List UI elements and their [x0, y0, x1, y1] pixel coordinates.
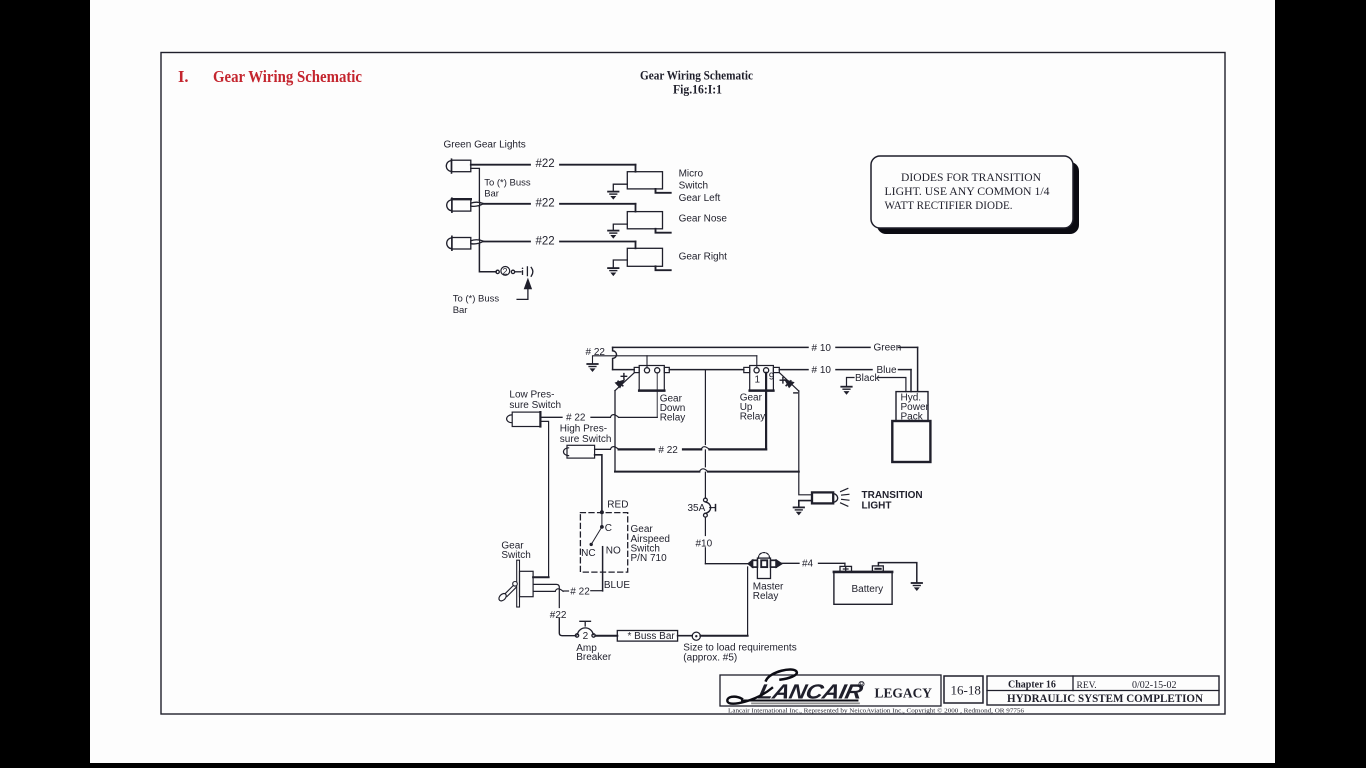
wire bus through splice2: [478, 201, 480, 207]
wire gear switch lower lead (#22 to BLUE): [533, 590, 555, 592]
svg-text:# 10: # 10: [812, 343, 832, 354]
svg-text:Low Pres-: Low Pres-: [509, 390, 554, 401]
lamp DS2 (nose gear light): [447, 200, 452, 211]
gear switch body: [520, 571, 534, 596]
wire contact bus (y369.6): [613, 369, 635, 371]
connector (quick disconnect): [522, 268, 524, 270]
wire ground stub gear left: [613, 184, 627, 191]
wire ground stub gear nose: [613, 224, 627, 230]
micro switch box Gear Nose: [627, 212, 662, 229]
fuse 35A: [704, 498, 708, 502]
svg-text:Gear Right: Gear Right: [679, 252, 728, 263]
gear switch lever handle: [498, 592, 508, 602]
svg-text:35A: 35A: [688, 503, 706, 514]
label + (diode D1): [621, 374, 626, 379]
svg-text:NO: NO: [606, 545, 621, 556]
svg-text:2: 2: [503, 266, 508, 276]
gear switch lever: [504, 586, 516, 597]
label + (diode D2): [780, 378, 785, 383]
wire hop (bus A over coil bus): [613, 347, 617, 369]
master relay body: [757, 558, 770, 578]
svg-text:Gear Wiring Schematic: Gear Wiring Schematic: [213, 67, 362, 86]
ground (battery): [912, 583, 922, 591]
master relay left terminal: [748, 560, 752, 567]
wire battery negative to ground: [878, 563, 916, 583]
svg-text:Breaker: Breaker: [576, 652, 612, 663]
svg-text:C: C: [605, 523, 612, 534]
svg-text:0/02-15-02: 0/02-15-02: [1132, 680, 1176, 691]
svg-text:Relay: Relay: [740, 412, 766, 423]
wire relay K2 terminal9 down to #22: [765, 373, 767, 450]
logo registered mark: [859, 681, 864, 686]
svg-text:To (*) Buss: To (*) Buss: [453, 294, 500, 305]
wire low pressure switch tail down: [540, 421, 548, 577]
node C (airspeed switch common): [600, 525, 604, 529]
wire gear switch upper lead down to breaker: [533, 584, 559, 607]
relay K2 left tab: [744, 367, 750, 372]
ground (gear left switch): [608, 192, 618, 200]
wire black lead to hyd power pack: [847, 378, 906, 392]
svg-text:Fig.16:I:1: Fig.16:I:1: [673, 83, 722, 97]
svg-text:sure Switch: sure Switch: [560, 434, 612, 445]
svg-text:Relay: Relay: [753, 591, 779, 602]
wire buss bar to stud: [678, 635, 693, 637]
svg-text:LIGHT. USE ANY COMMON 1/4: LIGHT. USE ANY COMMON 1/4: [885, 186, 1050, 198]
wire breaker to buss bar: [595, 635, 617, 637]
ground (gear nose switch): [608, 231, 618, 239]
svg-text:# 10: # 10: [812, 365, 832, 376]
svg-text:Gear Nose: Gear Nose: [679, 214, 728, 225]
wire ground stub gear right: [613, 260, 627, 268]
footer table frame: [987, 676, 1219, 705]
svg-text:(approx. #5): (approx. #5): [683, 652, 737, 663]
wire tail gear right switch: [656, 266, 671, 270]
note box shadow: [877, 162, 1079, 234]
wire fuse down to master relay: [704, 517, 706, 535]
svg-text:#4: #4: [802, 559, 814, 570]
breaker 2A (lights): [501, 267, 510, 276]
stud connector: [692, 632, 700, 640]
note box (diodes for transition light): [871, 156, 1073, 228]
wire left drop from diode D1: [614, 391, 616, 472]
wire breaker to connector: [515, 271, 521, 273]
battery - terminal: [872, 566, 883, 572]
wire bottom bus (y471.6): [615, 471, 699, 473]
svg-text:Switch: Switch: [501, 550, 530, 561]
svg-text:9: 9: [769, 372, 775, 383]
wire top bus #10 Green (y347.4): [613, 346, 808, 348]
master relay dome (dashed): [758, 553, 769, 559]
ground (coil bus): [587, 364, 597, 372]
wire transition light ground stub: [799, 501, 812, 508]
wire high pressure switch tail: [595, 455, 602, 512]
wire bus through splice3: [478, 239, 480, 245]
diode D1 (gear down): [615, 373, 634, 391]
lamp DS1 (left gear light): [446, 161, 451, 172]
svg-text:Gear Left: Gear Left: [679, 193, 721, 204]
wire right drop from diode D2 to transition light: [799, 391, 812, 495]
node NC contact: [590, 543, 593, 546]
gear switch pivot: [513, 582, 518, 587]
svg-text:DIODES FOR TRANSITION: DIODES FOR TRANSITION: [901, 172, 1042, 184]
page number box 16-18: [944, 676, 983, 703]
wire bus lamp3 down to breaker: [479, 245, 496, 272]
svg-text:LEGACY: LEGACY: [875, 686, 933, 701]
low pressure switch: [507, 415, 512, 423]
svg-text:Bar: Bar: [484, 189, 499, 200]
diode D2 (gear up): [779, 373, 799, 391]
svg-text:Battery: Battery: [852, 584, 884, 595]
wire #10 to master relay: [705, 563, 748, 565]
logo underline shadow: [752, 702, 859, 704]
wire lamp3 to micro switch (#22): [484, 241, 530, 243]
relay K2 right tab: [773, 367, 779, 372]
svg-text:Blue: Blue: [877, 365, 897, 376]
wire high pressure switch to relay K2 (#22): [595, 448, 611, 450]
footer logo box: [720, 675, 941, 706]
svg-text:Bar: Bar: [453, 305, 468, 316]
wire green drop to hyd power pack: [917, 347, 919, 391]
battery box: [834, 572, 892, 604]
logo bottom swash loop: [727, 688, 772, 704]
svg-text:Black: Black: [855, 373, 880, 384]
master relay right terminal: [771, 560, 777, 567]
svg-text:LIGHT: LIGHT: [862, 501, 892, 512]
svg-text:P/N 710: P/N 710: [631, 553, 668, 564]
svg-text:# 22: # 22: [566, 413, 586, 424]
svg-text:RED: RED: [607, 500, 628, 511]
svg-text:NC: NC: [581, 548, 595, 559]
relay K1 coil terminal 1: [644, 368, 649, 373]
micro switch box Gear Left: [627, 172, 662, 189]
svg-text:HYDRAULIC SYSTEM COMPLETION: HYDRAULIC SYSTEM COMPLETION: [1007, 691, 1203, 705]
svg-text:16-18: 16-18: [951, 683, 981, 698]
svg-text:2: 2: [583, 631, 589, 642]
battery + terminal: [840, 566, 852, 572]
gear airspeed switch dashed box: [580, 513, 627, 573]
node RED junction: [600, 510, 604, 514]
relay K1 coil terminal 2: [655, 368, 660, 373]
wire tail gear left switch: [656, 189, 671, 193]
wire lamp1 tail to bus: [471, 168, 480, 200]
ground (black lead): [841, 387, 851, 395]
transition light lamp: [812, 492, 833, 503]
svg-text:# 22: # 22: [570, 587, 590, 598]
wire branch to gear up coil: [756, 356, 758, 368]
lamp DS3 (right gear light): [447, 238, 452, 249]
svg-text:#22: #22: [536, 197, 555, 209]
splice lamp2: [471, 202, 484, 206]
wire master relay to battery (#4): [782, 562, 799, 564]
wire tail gear nose switch: [656, 229, 671, 233]
svg-text:Switch: Switch: [679, 181, 708, 192]
master relay center post: [761, 560, 767, 567]
wire lamp1 to micro switch (#22): [471, 164, 530, 166]
svg-text:#22: #22: [536, 235, 555, 247]
relay K1 gear down: body: [639, 366, 664, 391]
wire NO contact down: [602, 547, 604, 591]
label - (diode D2): [794, 392, 798, 394]
hyd power pack label box: [896, 392, 928, 421]
hyd power pack body: [892, 421, 930, 462]
svg-text:#10: #10: [696, 539, 713, 550]
svg-text:BLUE: BLUE: [604, 580, 630, 591]
wire coil bus (y355.8): [593, 356, 757, 364]
svg-text:Relay: Relay: [660, 413, 686, 424]
switch arm C to NC: [591, 527, 602, 545]
svg-text:To (*) Buss: To (*) Buss: [484, 177, 531, 188]
wire low pressure switch to relay K1 (#22): [540, 416, 562, 418]
micro switch box Gear Right: [627, 248, 662, 266]
svg-text:1: 1: [755, 375, 761, 386]
svg-text:* Buss Bar: * Buss Bar: [628, 631, 676, 642]
svg-text:R: R: [860, 682, 864, 688]
logo underline: [742, 700, 858, 702]
svg-text:Green Gear Lights: Green Gear Lights: [444, 140, 526, 151]
wire gear switch feed (from low pressure): [533, 576, 549, 578]
svg-text:Gear Wiring Schematic: Gear Wiring Schematic: [640, 69, 753, 83]
svg-text:WATT RECTIFIER DIODE.: WATT RECTIFIER DIODE.: [885, 200, 1013, 212]
high pressure switch: [564, 448, 569, 456]
breaker 2A (gear): [577, 628, 593, 635]
footer table column divider: [1072, 676, 1074, 691]
relay K2 coil terminal 9: [764, 368, 769, 373]
wire RED junction to C: [601, 512, 603, 527]
wire blue drop to hyd power pack: [910, 370, 912, 392]
relay K1 right tab: [664, 367, 669, 372]
svg-text:REV.: REV.: [1077, 681, 1097, 691]
svg-text:sure Switch: sure Switch: [509, 400, 561, 411]
svg-text:#22: #22: [536, 158, 555, 170]
wire stud to master relay: [700, 567, 747, 636]
rays (transition light): [841, 488, 849, 506]
buss bar box: [617, 631, 677, 642]
page border frame: [161, 53, 1225, 715]
svg-text:TRANSITION: TRANSITION: [862, 490, 923, 501]
splice lamp3: [471, 240, 484, 244]
svg-text:Micro: Micro: [679, 169, 704, 180]
svg-text:I.: I.: [178, 67, 189, 86]
relay K2 gear up: body: [750, 366, 774, 391]
relay K2 coil terminal 1: [754, 368, 759, 373]
svg-text:# 22: # 22: [658, 445, 678, 456]
svg-text:#22: #22: [550, 610, 567, 621]
wire bus lamp2 to lamp3: [478, 207, 480, 239]
svg-text:Green: Green: [874, 343, 902, 354]
ground (gear right switch): [608, 268, 618, 276]
wire vertical to 35A fuse: [704, 370, 706, 445]
relay K1 left tab: [634, 367, 639, 372]
wire relay K1 terminal2 down: [656, 373, 658, 418]
svg-text:Chapter 16: Chapter 16: [1008, 679, 1056, 690]
wire branch to gear down coil: [646, 356, 648, 368]
footer table row divider: [987, 690, 1219, 692]
ground (transition light): [794, 507, 804, 515]
svg-text:Lancair International Inc.,: Lancair International Inc., Represented …: [728, 708, 1024, 715]
Lancair script logo: [756, 681, 864, 704]
wire lamp2 to micro switch (#22): [484, 203, 530, 205]
arrow from To Buss Bar: [517, 288, 528, 299]
logo top flourish: [766, 670, 797, 681]
gear switch plate: [517, 560, 520, 607]
svg-text:Gear: Gear: [631, 524, 654, 535]
